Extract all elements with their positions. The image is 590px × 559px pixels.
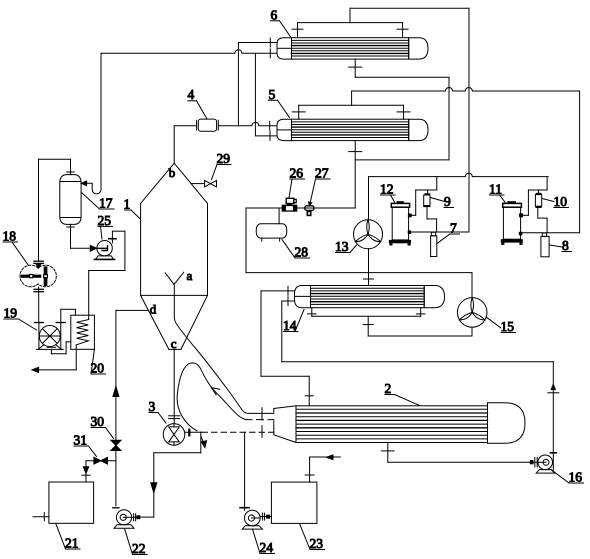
heat exchanger E6 shell bbox=[292, 38, 409, 59]
svg-text:9: 9 bbox=[444, 194, 451, 209]
label 18 bbox=[3, 229, 29, 265]
heat exchanger E6 right cap bbox=[409, 38, 428, 59]
label 14 bbox=[283, 310, 304, 334]
heat exchanger E5 right cap bbox=[409, 119, 428, 140]
motor valve 26 bbox=[282, 198, 298, 211]
svg-text:d: d bbox=[150, 302, 157, 317]
pump 24 bbox=[242, 510, 262, 529]
wire: coil outlet to left with arrow bbox=[32, 345, 76, 373]
wire: cartridge 9 bottom to filter-7 line bbox=[427, 207, 437, 232]
vent valve 29 bbox=[191, 181, 217, 187]
svg-text:24: 24 bbox=[260, 540, 274, 555]
svg-text:28: 28 bbox=[295, 245, 309, 260]
wire: E5 header riser to far right column (hops over x449 and x469) bbox=[352, 88, 580, 233]
svg-text:31: 31 bbox=[74, 433, 88, 448]
valve 31 bbox=[94, 457, 108, 464]
label 16 bbox=[552, 470, 584, 485]
pump 16 bbox=[536, 455, 554, 473]
wire: feed riser to vessel 1 nozzle d bbox=[113, 310, 148, 505]
wire: header down-comer to vessel 17 (J-bend with arrow) bbox=[81, 53, 101, 194]
valve 30 bbox=[111, 440, 121, 450]
heat exchanger E14 shell bbox=[311, 286, 425, 308]
label 11 bbox=[489, 182, 506, 203]
svg-text:5: 5 bbox=[269, 87, 276, 102]
label 19 bbox=[4, 306, 37, 331]
wire: drum 28 inlet stub bbox=[278, 208, 280, 224]
svg-text:30: 30 bbox=[91, 414, 105, 429]
svg-text:17: 17 bbox=[99, 196, 113, 211]
label 12 bbox=[380, 182, 395, 203]
tank 21 bbox=[49, 482, 94, 523]
wire: branch down to manifold of assembly 11 bbox=[523, 177, 547, 216]
wire: E2 bottom outlet to pump 16 bbox=[381, 443, 538, 468]
heat exchanger E5 shell bbox=[292, 119, 409, 140]
label 20 bbox=[91, 350, 106, 376]
label 31 bbox=[74, 433, 97, 457]
wire: filter-8 collection line to right column bbox=[522, 232, 579, 234]
svg-text:21: 21 bbox=[65, 536, 79, 551]
wire: E14 shell bottom header bbox=[308, 308, 473, 336]
wire: tank 21 left stub bbox=[33, 513, 49, 521]
label 25 bbox=[98, 213, 113, 239]
wire: vessel1 apex riser to capsule 4 bbox=[174, 126, 196, 163]
filter 12 bbox=[389, 201, 412, 245]
wire: E14 tube-side inlet (lower-left) from pump 16 riser bbox=[282, 297, 559, 471]
wire: E6 bottom outlet to join line bbox=[349, 59, 449, 160]
svg-text:a: a bbox=[187, 268, 193, 283]
wire: condensate line from E5/E6 bottoms to drum and fan 15 loop bbox=[246, 208, 472, 298]
svg-text:b: b bbox=[169, 165, 176, 180]
tank 23 bbox=[271, 482, 317, 523]
wire: instrument 18 bottom to valve 19 bbox=[34, 287, 43, 323]
wire: cartridge 10 bottom to filter-8 line bbox=[538, 208, 547, 233]
wire: funnel c to rotary valve 3 bbox=[169, 349, 180, 423]
label 4 bbox=[188, 87, 207, 118]
label 26 bbox=[289, 166, 305, 199]
wire: E6 header riser to right column bbox=[350, 8, 469, 232]
wire: pump 25 discharge loop to coil box 20 bbox=[89, 231, 125, 319]
label 5 bbox=[269, 87, 290, 118]
svg-text:c: c bbox=[171, 336, 177, 351]
filter 7 bbox=[431, 232, 437, 256]
label 24 bbox=[253, 529, 275, 555]
label 15 bbox=[486, 317, 516, 334]
svg-text:6: 6 bbox=[271, 8, 278, 23]
svg-text:22: 22 bbox=[132, 541, 146, 556]
fan/blower 13 bbox=[354, 220, 383, 249]
heat exchanger E14 left cap bbox=[295, 286, 311, 308]
heat exchanger E14 tubes bbox=[311, 288, 425, 304]
wire: E14 tube-side outlet (upper-left) to HX2 top bbox=[261, 286, 313, 405]
heat exchanger E6 left cap bbox=[277, 38, 292, 59]
control valve 27 bbox=[305, 206, 314, 216]
wire: riser to E6 top-left stub bbox=[238, 38, 277, 126]
label 9 bbox=[431, 194, 454, 209]
svg-text:16: 16 bbox=[569, 470, 583, 485]
label 29 bbox=[212, 151, 232, 180]
svg-text:1: 1 bbox=[124, 197, 131, 212]
fan/blower 15 bbox=[457, 298, 487, 328]
wire: valve 19 bottom outlet to box 20 left bbox=[47, 342, 71, 354]
vessel V1 body bbox=[141, 163, 208, 349]
svg-text:4: 4 bbox=[188, 87, 195, 102]
wire: valve 19 right riser to box 20 top bbox=[61, 309, 76, 323]
label 17 bbox=[82, 193, 114, 211]
flow arrow at chute lower end bbox=[201, 436, 207, 448]
E6 top bracket header with nozzles bbox=[292, 23, 408, 38]
inline filter 4 bbox=[197, 119, 219, 131]
label 30 bbox=[91, 414, 114, 439]
cartridge 9 bbox=[424, 190, 430, 207]
label 1 bbox=[124, 197, 141, 220]
chute lower line: loop curl and parallel line to HX2 upper inlet bbox=[177, 363, 274, 431]
wire: tank 23 top stub with arrow feed bbox=[305, 455, 340, 482]
label 7 bbox=[437, 221, 460, 244]
svg-text:3: 3 bbox=[149, 399, 156, 414]
cartridge 10 bbox=[535, 190, 541, 208]
wire: fan 13 discharge into HX14 shell bbox=[364, 249, 374, 286]
label 2 bbox=[385, 381, 420, 406]
wire: return header y53.3 to vessel17 (hop at 238.4), E6 and E5 lower stubs bbox=[101, 49, 277, 141]
svg-text:7: 7 bbox=[450, 221, 457, 236]
svg-text:2: 2 bbox=[385, 381, 392, 396]
svg-text:11: 11 bbox=[489, 182, 502, 197]
label 23 bbox=[300, 524, 325, 552]
wire: pump 24 suction from tank 23 bbox=[260, 513, 271, 520]
wire: fan 13 header to filter assemblies (hop at 469) bbox=[369, 173, 549, 177]
rotary feeder 3 bbox=[163, 424, 189, 446]
svg-text:23: 23 bbox=[310, 536, 324, 551]
heat exchanger E6 tubes bbox=[292, 40, 409, 56]
heat exchanger E2 shell bbox=[296, 406, 488, 443]
chute upper line from vessel 1 center tube to HX2 upper inlet bbox=[174, 284, 273, 414]
vessel 17 bbox=[60, 175, 81, 225]
wire: rotary valve 3 outlet, dashed conveying line to HX2 lower inlet bbox=[185, 408, 274, 437]
node a distributor Y bbox=[165, 268, 192, 284]
wire: filter-7 collection line to riser 469 bbox=[410, 231, 469, 233]
heat exchanger E2 inlet cone bbox=[274, 406, 296, 443]
label 21 bbox=[56, 524, 80, 551]
coil exchanger 20 bbox=[71, 315, 95, 349]
wire: pump 24 discharge riser to dashed line bbox=[240, 432, 249, 510]
svg-text:19: 19 bbox=[4, 306, 18, 321]
wire: E5 bottom outlet bbox=[349, 141, 449, 208]
wire: branch line with valve 31 to tank 21 bbox=[82, 461, 116, 482]
wire: branch down to manifold of assembly 12 bbox=[411, 177, 436, 216]
heat exchanger E2 right cap bbox=[488, 403, 526, 443]
wire: fan 13 suction from line bbox=[368, 177, 370, 220]
wire: pump 22 suction from rotary valve 3 line bbox=[132, 432, 201, 521]
svg-text:25: 25 bbox=[98, 213, 112, 228]
label 8 bbox=[550, 238, 572, 253]
svg-text:14: 14 bbox=[283, 318, 297, 333]
wire: capsule 4 outlet header (T at 238.4, hop at 255.4, to E5 top-left stub) bbox=[219, 121, 277, 130]
svg-text:15: 15 bbox=[501, 319, 515, 334]
pump 25 bbox=[95, 241, 115, 260]
drum 28 bbox=[256, 224, 287, 241]
instrument 18 (dashed body flow device) bbox=[20, 261, 56, 287]
svg-text:13: 13 bbox=[335, 239, 349, 254]
label 13 bbox=[335, 239, 357, 254]
heat exchanger E14 right cap bbox=[424, 286, 444, 308]
pump 22 bbox=[113, 508, 134, 528]
label 10 bbox=[542, 194, 569, 209]
heat exchanger E5 left cap bbox=[277, 119, 292, 140]
svg-text:27: 27 bbox=[315, 166, 329, 181]
label 27 bbox=[309, 166, 330, 206]
heat exchanger E2 tubes bbox=[296, 409, 488, 439]
flow arrow on chute bbox=[211, 388, 219, 395]
svg-text:8: 8 bbox=[562, 238, 569, 253]
label 22 bbox=[125, 529, 148, 557]
label 28 bbox=[282, 240, 310, 260]
label 3 bbox=[149, 399, 167, 423]
E5 top bracket header with nozzles bbox=[292, 105, 410, 119]
wire: vessel 17 top to vessel 18 bbox=[39, 159, 75, 260]
filter 11 bbox=[501, 201, 523, 245]
label 6 bbox=[271, 8, 291, 37]
svg-text:26: 26 bbox=[290, 166, 304, 181]
filter 8 bbox=[541, 233, 549, 257]
svg-text:12: 12 bbox=[380, 182, 394, 197]
svg-text:29: 29 bbox=[217, 151, 231, 166]
wire: vessel 17 bottom to pump 25 bbox=[67, 224, 97, 251]
heat exchanger E5 tubes bbox=[292, 122, 409, 138]
rotary mixing valve 19 bbox=[37, 323, 66, 350]
svg-text:18: 18 bbox=[3, 229, 17, 244]
svg-text:10: 10 bbox=[554, 194, 568, 209]
